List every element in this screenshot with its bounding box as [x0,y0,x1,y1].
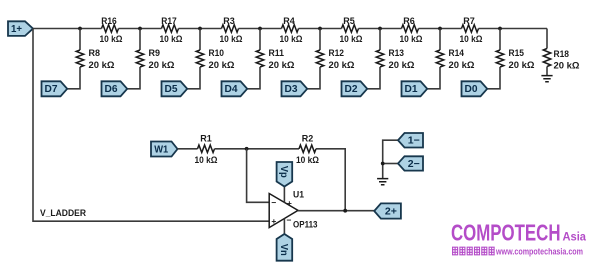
node junction at R14 [438,27,442,31]
svg-text:20 kΩ: 20 kΩ [509,60,535,71]
svg-text:1+: 1+ [11,24,22,35]
node junction output [343,209,347,213]
tag D1 [402,81,428,96]
resistor R7 10 k [460,16,483,45]
svg-text:Vn: Vn [278,244,289,256]
wire R9 to tag D6 [127,67,140,89]
wire Vn pin [283,219,285,234]
wire rail to R18 [546,29,548,49]
svg-text:10 kΩ: 10 kΩ [460,34,483,45]
resistor R1 10 k [195,134,218,167]
svg-text:R2: R2 [302,134,314,145]
svg-text:10 kΩ: 10 kΩ [220,34,243,45]
svg-text:R10: R10 [209,48,225,59]
svg-text:20 kΩ: 20 kΩ [554,61,580,72]
resistor R14 20 k [436,48,475,71]
svg-text:10 kΩ: 10 kΩ [400,34,423,45]
node junction at R15 [498,27,502,31]
svg-text:R7: R7 [463,16,475,27]
svg-text:D7: D7 [45,84,58,95]
svg-text:10 kΩ: 10 kΩ [160,34,183,45]
svg-text:20 kΩ: 20 kΩ [389,60,415,71]
svg-text:Asia: Asia [563,229,587,243]
svg-text:D3: D3 [285,84,298,95]
wire W1 to R1 [178,148,198,150]
svg-text:D4: D4 [225,84,238,95]
tag D3 [282,81,308,96]
tag 2- [398,156,423,170]
net label V_LADDER [40,208,86,219]
svg-text:20 kΩ: 20 kΩ [89,60,115,71]
op-amp U1 OP113 [269,190,317,231]
svg-text:R17: R17 [161,16,177,27]
wire R1 to R2 (summing node) [215,148,300,150]
svg-text:www.compotechasia.com: www.compotechasia.com [495,247,583,257]
svg-text:R12: R12 [329,48,345,59]
svg-text:+: + [271,216,276,226]
tag D5 [162,81,188,96]
wire R12 to tag D3 [307,67,320,89]
resistor R9 20 k [136,48,175,71]
svg-text:2−: 2− [408,159,420,170]
wire V_LADDER net from 1+ to op-amp +input [33,29,269,222]
wire R13 to tag D2 [367,67,380,89]
tag D4 [222,81,248,96]
wire R14 to tag D1 [427,67,440,89]
svg-text:10 kΩ: 10 kΩ [195,155,218,166]
node junction at R8 [78,27,82,31]
wire rail to R8 [79,29,81,51]
ground under 1-/2- [377,179,388,185]
wire rail to R14 [439,29,441,51]
svg-text:10 kΩ: 10 kΩ [100,34,123,45]
resistor R17 10 k [160,16,183,45]
node junction at R10 [198,27,202,31]
resistor R3 10 k [220,16,243,45]
svg-text:20 kΩ: 20 kΩ [209,60,235,71]
tag D7 [42,81,68,96]
svg-text:R9: R9 [149,48,161,59]
wire top rail [33,28,547,30]
node junction at R11 [258,27,262,31]
svg-text:R18: R18 [554,49,570,60]
tag Vp supply [277,162,293,187]
resistor R8 20 k [76,48,115,71]
resistor R12 20 k [316,48,355,71]
svg-text:R1: R1 [200,134,212,145]
svg-text:+: + [287,198,292,208]
resistor R11 20 k [256,48,295,71]
svg-text:D1: D1 [405,84,418,95]
wire junction to -input [247,149,270,203]
resistor R6 10 k [400,16,423,45]
svg-text:Vp: Vp [278,166,289,178]
logo url [495,247,583,257]
wire rail to R13 [379,29,381,51]
svg-text:D6: D6 [105,84,118,95]
node junction feedback [245,147,249,151]
svg-text:R5: R5 [343,16,355,27]
tag D0 [462,81,488,96]
resistor R2 10 k [296,134,319,167]
svg-text:1−: 1− [408,136,420,147]
node junction at R12 [318,27,322,31]
svg-text:R15: R15 [509,48,525,59]
wire R8 to tag D7 [67,67,80,89]
node junction 2- [381,162,385,166]
wire R18 to ground [546,67,548,76]
svg-text:COMPOTECH: COMPOTECH [451,219,561,245]
svg-text:R3: R3 [223,16,235,27]
logo chinese tagline glyphs [452,247,495,255]
svg-text:−: − [287,215,292,225]
resistor R13 20 k [376,48,415,71]
svg-text:R16: R16 [101,16,117,27]
resistor R15 20 k [496,48,535,71]
svg-text:OP113: OP113 [293,220,318,231]
svg-text:D2: D2 [345,84,358,95]
tag 1- [398,133,423,148]
svg-text:D0: D0 [465,84,478,95]
wire 1- 2- to ground [383,140,398,178]
svg-text:D5: D5 [165,84,178,95]
wire R10 to tag D5 [187,67,200,89]
tag W1 [151,142,178,157]
svg-text:20 kΩ: 20 kΩ [269,60,295,71]
svg-text:W1: W1 [154,144,168,155]
wire R15 to tag D0 [487,67,500,89]
svg-text:−: − [271,198,276,208]
svg-text:10 kΩ: 10 kΩ [296,155,319,166]
resistor R5 10 k [340,16,363,45]
wire rail to R9 [139,29,141,51]
wire rail to R10 [199,29,201,51]
resistor R18 20 k [543,49,580,72]
svg-text:2+: 2+ [385,206,397,217]
svg-text:20 kΩ: 20 kΩ [329,60,355,71]
logo COMPOTECH Asia [451,219,586,245]
tag 1+ input [8,21,33,36]
tag Vn supply [277,234,293,261]
svg-text:20 kΩ: 20 kΩ [149,60,175,71]
tag D2 [342,81,368,96]
svg-text:R14: R14 [449,48,465,59]
wire op-amp output [298,210,374,212]
wire rail to R11 [259,29,261,51]
wire R2 to output [316,149,345,211]
resistor R10 20 k [196,48,235,71]
svg-text:R6: R6 [403,16,415,27]
node junction at R13 [378,27,382,31]
wire Vp pin [283,187,285,203]
resistor R16 10 k [100,16,123,45]
svg-text:10 kΩ: 10 kΩ [280,34,303,45]
node junction at R9 [138,27,142,31]
resistor R4 10 k [280,16,303,45]
wire rail to R15 [499,29,501,51]
svg-text:R11: R11 [269,48,285,59]
svg-text:R13: R13 [389,48,405,59]
svg-text:R4: R4 [283,16,295,27]
tag D6 [102,81,128,96]
svg-text:20 kΩ: 20 kΩ [449,60,475,71]
svg-text:10 kΩ: 10 kΩ [340,34,363,45]
svg-text:U1: U1 [293,190,305,201]
svg-text:V_LADDER: V_LADDER [40,208,86,219]
tag 2+ output [374,203,401,218]
wire rail to R12 [319,29,321,51]
svg-text:R8: R8 [89,48,101,59]
ground under R18 [541,76,552,82]
wire R11 to tag D4 [247,67,260,89]
